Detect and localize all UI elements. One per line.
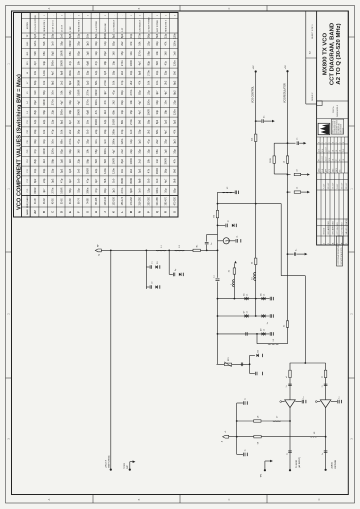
svg-text:K: K [113,211,116,213]
node W1 bottom [217,250,219,252]
capacitor C9 row1 end [269,297,271,301]
svg-text:6p8: 6p8 [68,33,72,38]
capacitor C6 branch [217,225,219,227]
svg-text:5k6: 5k6 [155,33,159,38]
svg-text:10n: 10n [85,119,89,124]
node +5V reg [286,70,288,72]
svg-text:10p: 10p [129,33,133,38]
svg-text:CHK: CHK [322,169,324,172]
svg-text:66-74: 66-74 [79,198,81,205]
svg-text:10p: 10p [42,139,46,144]
svg-text:4p7: 4p7 [33,60,37,65]
svg-text:270n: 270n [138,32,142,38]
svg-text:4p7: 4p7 [42,188,46,193]
svg-text:10p: 10p [155,70,159,75]
svg-text:3p3: 3p3 [172,139,176,144]
svg-text:120n: 120n [51,148,55,154]
svg-text:56p: 56p [146,51,150,56]
svg-text:D9: D9 [260,329,262,331]
svg-text:15p: 15p [77,70,81,75]
capacitor C3 [169,273,173,275]
svg-text:+8V (TX: +8V (TX [105,459,107,468]
title block approvals cells [317,172,349,174]
svg-text:33p: 33p [68,100,72,105]
svg-text:270n: 270n [146,70,150,76]
svg-text:390n: 390n [112,138,116,144]
svg-text:15p: 15p [77,33,81,38]
svg-text:33p: 33p [172,149,176,154]
svg-text:47p: 47p [94,188,98,193]
svg-text:ISSUE 2: ISSUE 2 [312,92,314,101]
svg-text:56p: 56p [42,109,46,114]
table grid [22,206,179,208]
svg-text:2k: 2k [229,270,231,272]
op-amp U1 [285,400,296,408]
svg-text:3p3: 3p3 [172,119,176,124]
svg-text:33p: 33p [94,41,98,46]
svg-text:2k2: 2k2 [120,70,124,75]
resistor R12 feed F [254,436,261,438]
svg-text:1k0: 1k0 [68,159,72,164]
svg-text:47p: 47p [164,60,168,65]
svg-text:1: 1 [44,15,46,16]
capacitor C31 U2 input [337,400,339,404]
svg-text:100R: 100R [129,60,133,66]
svg-text:DRG AMENDED: DRG AMENDED [331,220,334,234]
svg-text:33p: 33p [155,100,159,105]
svg-text:15p: 15p [120,51,124,56]
svg-text:8p2: 8p2 [172,90,176,95]
svg-text:22p: 22p [146,90,150,95]
svg-text:10k: 10k [42,80,46,85]
capacitor C12 row3 end [269,332,271,336]
svg-text:50-60: 50-60 [61,198,63,205]
svg-text:1k0: 1k0 [164,51,168,56]
svg-text:56p: 56p [42,90,46,95]
resistor R8 branch down [287,174,289,176]
svg-text:x2: x2 [246,294,248,296]
svg-text:56p: 56p [68,188,72,193]
svg-text:ISSUED: ISSUED [323,227,325,234]
capacitor C30 U1 input [301,400,303,404]
svg-text:15p: 15p [120,129,124,134]
svg-text:270n: 270n [120,60,124,66]
svg-text:1p5: 1p5 [164,119,168,124]
svg-text:4-3-97: 4-3-97 [325,156,327,161]
svg-text:18p: 18p [112,70,116,75]
svg-text:1p5: 1p5 [138,139,142,144]
svg-text:10k: 10k [155,51,159,56]
svg-text:10k: 10k [85,149,89,154]
svg-text:36-42: 36-42 [44,198,46,205]
varactor pair D9 [262,332,264,335]
svg-text:L9 2T 0.5mm: L9 2T 0.5mm [53,20,55,32]
svg-text:390R: 390R [155,168,159,174]
svg-text:8p2: 8p2 [120,158,124,163]
svg-text:8p2: 8p2 [120,33,124,38]
svg-text:1: 1 [35,15,37,16]
transistor Q1 pin circle [218,240,224,242]
svg-text:33p: 33p [164,139,168,144]
svg-text:8p2: 8p2 [51,51,55,56]
svg-text:1u: 1u [244,449,246,451]
svg-text:47p: 47p [120,80,124,85]
svg-text:8p2: 8p2 [112,33,116,38]
resistor R3 chain [233,268,235,274]
table VCO component values outline [14,13,179,218]
svg-text:120n: 120n [112,168,116,174]
svg-text:CCT DIAGRAM, BAND: CCT DIAGRAM, BAND [329,23,335,85]
input arrow AF [264,469,266,471]
capacitor C8 below Q1 [229,240,235,242]
svg-text:10k: 10k [59,90,63,95]
table title row [21,13,23,218]
svg-text:1n0: 1n0 [77,178,81,183]
terminal U1 output [289,469,291,471]
wire tap branch corner [218,191,235,193]
svg-text:270n: 270n [129,119,133,125]
svg-text:3: 3 [87,15,89,16]
copyright box [337,236,343,266]
svg-text:10k: 10k [129,100,133,105]
svg-text:8p2: 8p2 [155,119,159,124]
svg-text:2k2: 2k2 [103,110,107,115]
svg-text:270n: 270n [85,99,89,105]
capacitor C14 fork [250,373,255,375]
svg-text:1k0: 1k0 [77,149,81,154]
wire osc output net [218,203,282,205]
svg-text:18p: 18p [103,60,107,65]
svg-text:33p: 33p [77,41,81,46]
wire feed E [237,420,290,422]
svg-text:390R: 390R [94,89,98,95]
svg-text:3: 3 [174,15,176,16]
svg-text:6p8: 6p8 [129,188,133,193]
svg-text:1p5: 1p5 [103,70,107,75]
svg-text:100R: 100R [42,148,46,154]
input arrow TCXO [129,469,131,471]
node main osc junction [217,203,219,205]
svg-text:MX8-0412-1: MX8-0412-1 [337,104,339,116]
svg-text:8p2: 8p2 [68,80,72,85]
svg-text:10n: 10n [51,139,55,144]
svg-text:11-2-97: 11-2-97 [325,147,327,152]
svg-text:1k0: 1k0 [85,129,89,134]
svg-text:1u: 1u [303,396,305,398]
svg-text:2: 2 [61,15,63,16]
svg-text:4p7: 4p7 [155,90,159,95]
resistor R10 reg [286,321,288,328]
svg-text:1n: 1n [297,138,299,140]
inductor L7 feed E [273,420,281,422]
svg-text:270n: 270n [120,187,124,193]
svg-text:22p: 22p [172,100,176,105]
svg-text:VCO CONTROL: VCO CONTROL [253,85,255,103]
svg-text:4p7: 4p7 [51,70,55,75]
svg-text:10p: 10p [120,109,124,114]
svg-text:+5V: +5V [253,65,255,69]
svg-text:2n2: 2n2 [68,129,72,134]
svg-text:2k: 2k [284,325,286,327]
svg-text:L5 0.5T: L5 0.5T [61,24,63,32]
svg-text:(AF INPUT): (AF INPUT) [298,457,301,468]
svg-text:12p: 12p [51,119,55,124]
svg-text:88-108: 88-108 [96,197,98,205]
inductor L2 [175,249,185,251]
svg-text:B: B [318,142,320,143]
svg-text:N: N [139,211,142,213]
svg-text:82p: 82p [103,188,107,193]
svg-text:390n: 390n [68,70,72,76]
svg-text:68n: 68n [155,129,159,134]
resistor R11 opamp feed [324,370,326,377]
title block revision table [317,235,349,237]
svg-text:4p7: 4p7 [77,100,81,105]
svg-text:10k: 10k [146,80,150,85]
svg-text:1u: 1u [244,398,246,400]
svg-text:47p: 47p [51,129,55,134]
svg-text:8p2: 8p2 [33,178,37,183]
capacitor C1 varactor leg a [146,266,149,268]
svg-text:120n: 120n [146,99,150,105]
capacitor C20 opamp feed [288,385,292,387]
wire op-amp U1 branch [289,363,291,470]
svg-text:D6: D6 [260,293,262,295]
svg-text:10n: 10n [51,90,55,95]
wire stub C3 branch [168,250,170,274]
svg-text:1u: 1u [267,322,269,324]
svg-text:5k6: 5k6 [94,159,98,164]
varactor pair D6 [262,297,264,300]
svg-text:33p: 33p [103,129,107,134]
svg-text:22p: 22p [129,149,133,154]
svg-text:2: 2 [140,15,142,16]
svg-text:1n0: 1n0 [138,188,142,193]
svg-text:470-520: 470-520 [174,196,176,205]
svg-text:60-66: 60-66 [70,198,72,205]
wire stub C1 branch [145,250,147,289]
resistor R9 branch down [287,191,289,193]
svg-text:56p: 56p [146,33,150,38]
svg-text:22-5-97: 22-5-97 [328,183,330,189]
svg-text:2k2: 2k2 [129,168,133,173]
svg-text:22p: 22p [42,119,46,124]
svg-text:390R: 390R [103,33,107,39]
wire VCO resonator line [102,249,218,251]
svg-text:56p: 56p [77,129,81,134]
svg-text:1n0: 1n0 [172,51,176,56]
svg-text:DRN: DRN [318,169,320,172]
wire reg to row3 corner [257,343,288,345]
svg-text:100R: 100R [129,158,133,164]
svg-text:1p5: 1p5 [68,168,72,173]
title block outline [317,11,349,245]
wire control feed chain [233,264,235,299]
svg-text:D7: D7 [243,311,245,313]
svg-text:2: 2 [323,243,325,244]
svg-text:Q: Q [156,211,159,213]
svg-text:68n: 68n [155,149,159,154]
svg-text:108-132: 108-132 [105,196,107,205]
op-amp U2 [320,400,331,408]
svg-text:C: C [228,498,231,500]
svg-text:1k0: 1k0 [112,51,116,56]
svg-text:390R: 390R [68,40,72,46]
svg-text:33p: 33p [68,149,72,154]
svg-text:1n: 1n [152,262,154,264]
svg-text:10p: 10p [129,70,133,75]
svg-text:10k: 10k [42,129,46,134]
svg-text:1p5: 1p5 [164,149,168,154]
svg-text:12p: 12p [94,51,98,56]
svg-text:33p: 33p [138,149,142,154]
svg-text:390R: 390R [77,80,81,86]
svg-text:56p: 56p [164,168,168,173]
svg-text:BAND: BAND [26,209,29,215]
svg-text:8p2: 8p2 [33,100,37,105]
svg-text:270n: 270n [138,50,142,56]
svg-text:390n: 390n [103,148,107,154]
svg-text:82p: 82p [59,149,63,154]
svg-text:82p: 82p [146,60,150,65]
svg-text:390R: 390R [164,158,168,164]
svg-text:12p: 12p [129,139,133,144]
svg-text:VCO COMPONENT VALUES (Switchi: VCO COMPONENT VALUES (Switching BW = Max… [16,74,22,210]
svg-text:4p7: 4p7 [59,100,63,105]
capacitor C16 reg branch [287,142,289,144]
svg-text:R: R [165,211,168,213]
svg-text:1: 1 [346,243,348,244]
svg-text:MX800 TX VCO: MX800 TX VCO [323,32,329,75]
svg-text:FREQ RANGE: FREQ RANGE [26,194,29,208]
wire VCO REG rail [287,71,289,344]
svg-text:47k: 47k [172,129,176,134]
resistor R10 opamp feed [289,370,291,377]
svg-text:156-174: 156-174 [122,196,124,205]
svg-text:390n: 390n [94,99,98,105]
svg-text:100R: 100R [112,158,116,164]
svg-text:22p: 22p [164,33,168,38]
svg-text:12p: 12p [94,70,98,75]
svg-text:33p: 33p [42,168,46,173]
svg-text:VALUES UPDATED: VALUES UPDATED [345,218,348,235]
svg-text:33p: 33p [155,109,159,114]
svg-text:B: B [43,211,46,213]
frame zone ticks [6,377,12,379]
svg-text:270n: 270n [85,89,89,95]
svg-text:5k6: 5k6 [103,178,107,183]
svg-text:68n: 68n [59,139,63,144]
terminal U2 output [325,469,327,471]
svg-text:C15 NOT FITTED: C15 NOT FITTED [35,15,37,32]
svg-text:1u: 1u [322,453,324,455]
svg-text:SEE NOTE 1: SEE NOTE 1 [44,19,46,32]
svg-text:56p: 56p [85,158,89,163]
svg-text:5k6: 5k6 [172,168,176,173]
svg-text:1p5: 1p5 [85,51,89,56]
svg-text:47k: 47k [146,168,150,173]
svg-text:DO NOT SCALE DRG: DO NOT SCALE DRG [340,247,343,264]
resistor R4 [255,134,257,141]
svg-text:C: C [52,211,55,213]
svg-text:18p: 18p [146,119,150,124]
title block upper strip [305,11,307,104]
svg-text:TX MOD: TX MOD [296,459,298,468]
title block small size box [317,101,323,106]
svg-text:1: 1 [131,15,133,16]
svg-text:6p8: 6p8 [85,60,89,65]
svg-text:4p7: 4p7 [164,129,168,134]
svg-text:1k0: 1k0 [155,178,159,183]
svg-text:NOT FITTED: NOT FITTED [157,20,159,32]
svg-text:22p: 22p [146,41,150,46]
svg-text:1k0: 1k0 [112,178,116,183]
svg-text:2k2: 2k2 [146,129,150,134]
svg-text:47k: 47k [103,100,107,105]
svg-text:2k2: 2k2 [42,159,46,164]
svg-text:1: 1 [337,243,339,244]
varactor D2 [155,285,157,288]
capacitor C5 tap end [234,191,236,195]
svg-text:1n0: 1n0 [103,139,107,144]
svg-text:5k6: 5k6 [138,119,142,124]
svg-text:CCT REVISED: CCT REVISED [341,222,343,235]
wire U1 input line [282,401,285,403]
svg-text:250-300: 250-300 [148,196,150,205]
svg-text:SEE NOTE 3: SEE NOTE 3 [166,19,168,32]
svg-text:390R: 390R [120,178,124,184]
svg-text:22p: 22p [51,109,55,114]
svg-text:SHEET 1 OF 1: SHEET 1 OF 1 [312,24,314,39]
svg-text:2k2: 2k2 [129,80,133,85]
svg-text:5k6: 5k6 [172,178,176,183]
wire +8V supply rail [110,250,112,469]
wire parallel resistor box [273,143,275,174]
svg-text:1n: 1n [211,243,213,245]
svg-text:+5: +5 [225,431,227,433]
svg-text:10n: 10n [155,80,159,85]
svg-text:10n: 10n [85,33,89,38]
svg-text:C20 SELECT: C20 SELECT [140,19,142,32]
svg-text:18p: 18p [68,90,72,95]
svg-text:22p: 22p [77,158,81,163]
svg-text:2k2: 2k2 [164,80,168,85]
svg-text:33p: 33p [155,41,159,46]
svg-text:380-470: 380-470 [166,196,168,205]
svg-text:D: D [318,498,321,500]
wire thermistor row 4 [217,363,250,365]
svg-text:8p2: 8p2 [103,51,107,56]
svg-text:NOTES: NOTES [27,22,29,30]
svg-text:10n: 10n [94,139,98,144]
svg-text:M34 5QT: M34 5QT [342,128,344,134]
diode D10 fork [250,354,255,356]
node row3 R2 link [256,333,258,335]
svg-text:SEE NOTE 2: SEE NOTE 2 [79,19,81,32]
wire varactor row 1 [218,298,270,300]
svg-text:15p: 15p [51,168,55,173]
svg-text:+5V: +5V [285,65,287,69]
svg-text:390R: 390R [77,109,81,115]
svg-text:2 OFF: 2 OFF [70,25,72,31]
svg-text:3p3: 3p3 [138,168,142,173]
varactor pair D8 [262,314,264,317]
svg-text:10p: 10p [112,60,116,65]
inductor L4 chain [233,280,235,287]
svg-text:15p: 15p [146,149,150,154]
svg-text:CCT REVISED: CCT REVISED [337,222,339,235]
svg-text:82p: 82p [33,158,37,163]
